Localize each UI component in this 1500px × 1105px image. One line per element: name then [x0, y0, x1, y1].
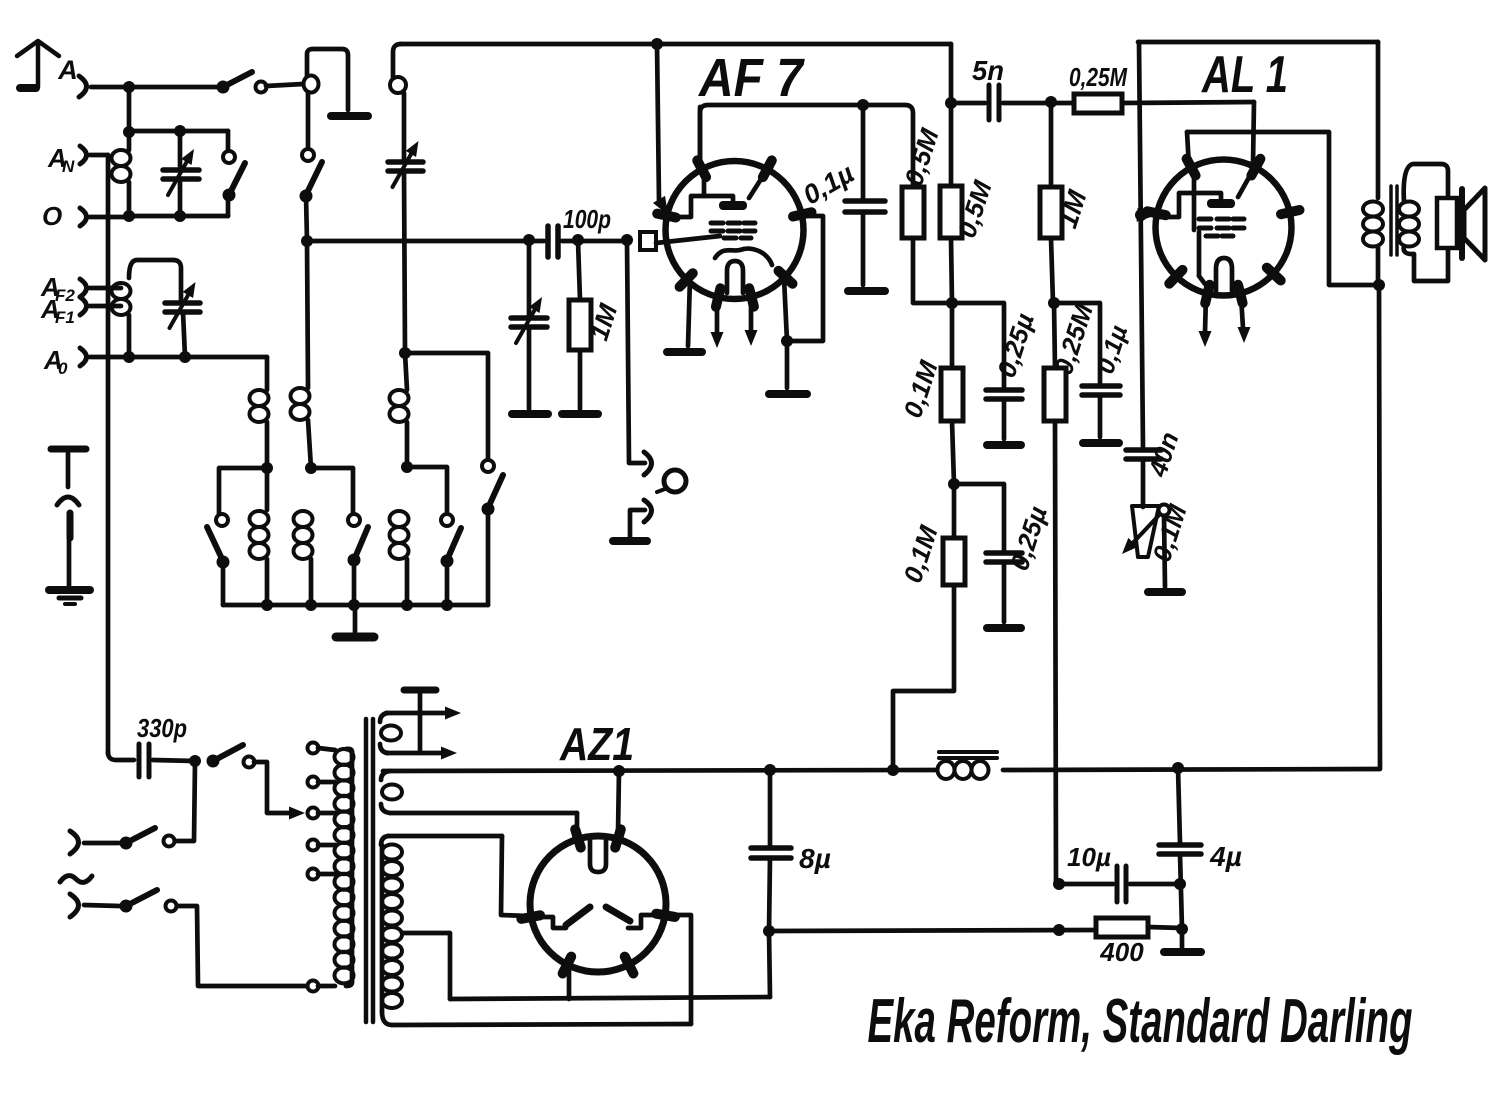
heater winding 2 loop [381, 771, 390, 780]
wire 0,5M1 bottom jog [913, 238, 1004, 388]
node A0 cap [179, 351, 191, 363]
speaker diaphragm [1459, 189, 1465, 258]
column2 lower coil L7 [294, 511, 313, 527]
resistor 0,1M first [950, 303, 955, 368]
node 330p out [189, 755, 201, 767]
node grid rail left [301, 235, 313, 247]
terminal O jaw [80, 208, 87, 226]
node bus choke [887, 764, 899, 776]
svg-text:4µ: 4µ [1209, 841, 1242, 872]
node divider mid [946, 297, 958, 309]
svg-text:0,25M: 0,25M [1069, 62, 1128, 92]
capacitor 330p [108, 752, 134, 760]
wire contact to coupling coil [266, 84, 303, 86]
ground of heater ct [404, 687, 436, 694]
OT secondary top lead [1404, 164, 1448, 202]
OT secondary bottom lead [1404, 246, 1448, 281]
padder coil L10 [393, 44, 401, 77]
terminal AF1 jaw [80, 297, 87, 315]
svg-text:AZ1: AZ1 [559, 718, 634, 770]
transformer core [364, 719, 369, 1022]
OT primary winding [1363, 202, 1383, 217]
AL1 cathode [1216, 258, 1232, 291]
AL1 pins [1147, 211, 1166, 215]
wire 0,1M2 to bus [893, 585, 954, 768]
wire O to tank1 [90, 215, 129, 220]
node column3 top [399, 347, 411, 359]
node grid feed [651, 38, 663, 50]
AF7 anode bar [719, 201, 747, 210]
ground (earth electrode) [49, 586, 90, 594]
tube AZ1 envelope [530, 836, 666, 972]
node tank1 top-left [123, 126, 135, 138]
node bus c3a [401, 599, 413, 611]
svg-text:AF 7: AF 7 [697, 48, 805, 108]
ground of AF7 cathode [667, 348, 702, 356]
tank2 top wire [129, 260, 181, 301]
wire N to switch [84, 905, 119, 906]
svg-text:Eka Reform, Standard Darling: Eka Reform, Standard Darling [868, 987, 1413, 1056]
wire 4u to ground [1180, 929, 1185, 948]
wire to AL1 grid cap [1253, 102, 1254, 164]
reaction variable capacitor C4 [527, 241, 532, 316]
node 10u left [1053, 878, 1065, 890]
earth stem lower [67, 539, 72, 586]
svg-text:O: O [42, 201, 62, 231]
column3 lower coil L9 [390, 511, 409, 527]
capacitor 8u [768, 770, 773, 846]
wire switch to grid rail [306, 196, 307, 241]
resistor 400 [1096, 918, 1148, 937]
node bus 8u [764, 764, 776, 776]
AF7 cathode [727, 261, 743, 293]
terminal AN jaw [80, 146, 87, 164]
AL1 top-right pin lead [1238, 172, 1252, 197]
ground of 1M [562, 410, 598, 418]
AF7 beam plate wave [715, 249, 772, 265]
wire AN to vertical [90, 153, 108, 158]
mains terminal L jaw [70, 831, 79, 854]
wire antenna to switch [91, 85, 222, 90]
AL1 top rail [1138, 40, 1378, 45]
wire C1 bottom [178, 179, 183, 216]
wire antenna node down [127, 87, 132, 132]
AZ1 key notch [590, 839, 606, 872]
AF7 grid top feed [657, 44, 659, 201]
wire AL1 grid vertical [1139, 42, 1143, 448]
svg-text:100p: 100p [563, 204, 611, 234]
potentiometer 0,1M wedge [1132, 506, 1159, 557]
node column1 mid [261, 462, 273, 474]
capacitor 10u [1059, 882, 1113, 887]
wire 400 to 4u [1148, 927, 1182, 928]
antenna A symbol [17, 41, 59, 87]
tube AL1 envelope [1156, 160, 1292, 296]
variable capacitor C1 [178, 131, 183, 166]
AF7 cathode pin to ground [688, 278, 690, 346]
node screen cap [857, 99, 869, 111]
AL1 grid arrow [1137, 208, 1154, 222]
AL1 top-left pin lead [1192, 170, 1197, 230]
ground of 0,1u AL1 [1083, 439, 1119, 447]
node jack branch [621, 234, 633, 246]
HV winding bottom lead [382, 1012, 392, 1025]
wire down to coil column 2 [307, 241, 308, 385]
ground of 4u [1164, 948, 1201, 956]
AL1 anode drop [1187, 132, 1189, 167]
transformer primary winding [335, 749, 354, 765]
AL1 anode bar [1207, 199, 1235, 208]
node tank1 bottom-left [123, 210, 135, 222]
phone plug [664, 470, 686, 492]
svg-text:AL 1: AL 1 [1200, 46, 1288, 104]
svg-text:5n: 5n [972, 55, 1004, 86]
svg-text:0: 0 [58, 359, 68, 378]
OT core [1389, 186, 1393, 255]
svg-text:F1: F1 [55, 308, 75, 327]
potentiometer terminal [1159, 505, 1170, 516]
wire C4 down [527, 327, 532, 409]
node grid leak [572, 234, 584, 246]
ground of pot [1148, 588, 1182, 596]
tank1 top wire [129, 129, 228, 134]
wire AN vertical down to 330p [106, 155, 111, 754]
coil bank bottom bus [223, 603, 488, 608]
switch S8 [120, 837, 133, 850]
mains terminal N jaw [70, 894, 79, 917]
AF7 anode out wire [787, 216, 823, 341]
wire top rail to OT [1376, 42, 1381, 198]
potentiometer wiper arrow [1130, 513, 1161, 546]
AL1 heater arrow right [1241, 296, 1243, 328]
heater winding 1 top [380, 713, 388, 722]
resistor 0,5M second [949, 103, 954, 186]
AZ1 anode stroke right [606, 907, 630, 921]
coil L2 [127, 132, 132, 150]
heater winding 2 to AZ1 [390, 811, 577, 816]
node low rail 8u [763, 925, 775, 937]
B+ bus right [1003, 769, 1380, 770]
wire AZ1 cathode tap [567, 958, 572, 999]
HV top to AZ1 anode [501, 836, 527, 916]
grid rail wire [307, 239, 544, 244]
HV center tap [402, 933, 450, 999]
AL1 grid dashes [1199, 217, 1211, 222]
phone jack prong upper [644, 452, 652, 475]
HV winding top lead [388, 834, 502, 839]
wire A0 to column1 [265, 357, 270, 390]
node bus gnd [348, 599, 360, 611]
node tank1 bottom-cap [174, 210, 186, 222]
switch S1a [217, 81, 230, 94]
capacitor 40n [1126, 447, 1161, 453]
wire bus down to AZ1 [618, 771, 619, 833]
wire C2 bottom [183, 312, 185, 357]
wire OT down to bus [1379, 285, 1380, 768]
earth stem upper [66, 453, 71, 487]
ground of 0,25u first [987, 441, 1021, 449]
speaker cone [1464, 188, 1485, 260]
column3 upper coil L8 [405, 353, 407, 390]
node bus c2a [305, 599, 317, 611]
mains AC symbol [60, 876, 92, 883]
ground of C4 [512, 410, 548, 418]
OT secondary winding [1399, 202, 1419, 217]
wire 0,5M2 bottom [951, 238, 952, 303]
switch S7 [207, 755, 220, 768]
ground of 0,1u [848, 287, 885, 295]
svg-text:400: 400 [1099, 937, 1144, 967]
wire 8u low link [769, 931, 770, 997]
svg-text:330p: 330p [137, 713, 187, 743]
wire AF2 to coil [90, 286, 121, 291]
switch S9 [120, 900, 133, 913]
phone jack prong lower [644, 500, 652, 522]
grid leak resistor 1M [578, 241, 580, 300]
AZ1 pins [575, 829, 581, 847]
node tank1 top-cap [174, 125, 186, 137]
AL1 heater arrow left [1205, 295, 1206, 332]
ground of coil bank [353, 605, 358, 633]
AF7 top-left pin lead [702, 175, 707, 196]
AF7 pins [657, 214, 676, 218]
column2 switch S4 [311, 468, 353, 514]
ground of coil L1 [331, 112, 368, 120]
speaker coil box [1437, 198, 1457, 248]
capacitor 0,1u AF7 [861, 105, 866, 199]
B+ bus left [383, 770, 937, 771]
wire S9 to bottom tap [177, 906, 306, 986]
antenna plug pin [20, 84, 36, 92]
resistor 0,25M vertical [1054, 303, 1055, 368]
capacitor 0,25u first [986, 387, 1022, 393]
AF7 heater arrow left [715, 297, 720, 333]
node grid varcap [523, 234, 535, 246]
ground of 0,25u second [987, 624, 1021, 632]
screen rail wire [700, 105, 913, 187]
wire C3 down to column3 [404, 171, 405, 351]
earth terminal bar [51, 446, 86, 453]
capacitor 100p [545, 226, 551, 257]
node AF7 anode return [781, 335, 793, 347]
node OT to anode [1373, 279, 1385, 291]
AF7 top-right pin lead [749, 176, 763, 198]
AF7 anode elbow [671, 196, 733, 217]
AZ1 left step [534, 917, 566, 928]
node decoupling mid [948, 478, 960, 490]
filter choke [938, 761, 955, 779]
svg-text:N: N [62, 157, 75, 176]
node bus c1a [261, 599, 273, 611]
node bus c3b [441, 599, 453, 611]
ground of AF7 return [769, 390, 807, 398]
terminal A0 jaw [80, 348, 87, 366]
antenna coupling coil L1 [307, 49, 348, 110]
wire S8 to 330p node [175, 763, 195, 841]
node A0 coil [123, 351, 135, 363]
earth plug pin [67, 513, 74, 538]
heater winding 1 loop [381, 726, 401, 741]
node bus 4u [1172, 762, 1184, 774]
earth jaw [57, 497, 79, 505]
ground of jack [613, 537, 647, 545]
column1 upper coil L4 [250, 390, 269, 406]
column1 switch S3 [219, 468, 267, 514]
resistor 1M AL1 [1049, 103, 1054, 187]
node screen top [945, 97, 957, 109]
transformer primary taps [308, 743, 319, 754]
AZ1 right step [628, 915, 662, 928]
HV winding [382, 845, 402, 860]
AF7 bottom-right pin wire [784, 278, 787, 341]
AF7 screen lead [698, 107, 703, 165]
svg-text:10µ: 10µ [1067, 842, 1111, 872]
svg-text:A: A [57, 55, 78, 85]
resistor 0,5M first [902, 187, 924, 238]
wire 0,1M join [952, 421, 954, 484]
node 5n out [1045, 96, 1057, 108]
node column2 mid [305, 462, 317, 474]
low rail [769, 930, 1096, 931]
capacitor 0,25u second [954, 484, 1004, 551]
wire A0 bus [90, 355, 267, 360]
AF7 heater arrow right [749, 298, 754, 331]
wire S7 to tap [254, 762, 289, 813]
node 10u right [1174, 878, 1186, 890]
wire to phone jack [627, 241, 645, 463]
resistor 0,1M second [952, 484, 957, 538]
column3 switch S6 [407, 467, 447, 514]
switch S2 of tank1 [226, 131, 231, 150]
node AL1 grid [1135, 209, 1147, 221]
coil L3 [112, 283, 131, 299]
svg-text:8µ: 8µ [799, 843, 831, 874]
column1 lower coil L5 [265, 468, 270, 510]
capacitor 0,1u AL1 [1054, 303, 1100, 384]
column3 switch S5 [405, 353, 488, 460]
filament rail [450, 997, 770, 999]
variable capacitor C3 [388, 159, 423, 165]
AF7 grid dashes [711, 221, 723, 226]
AL1 anode top wire [1187, 132, 1377, 285]
capacitor 4u [1178, 768, 1180, 843]
wire pot to ground [1164, 516, 1165, 587]
tube AF7 envelope [666, 161, 804, 299]
AZ1 anode return [665, 915, 691, 1024]
node bus AZ1 [613, 765, 625, 777]
capacitor 5n [951, 101, 985, 106]
terminal AF2 jaw [80, 279, 87, 297]
node 400 out [1176, 923, 1188, 935]
column2 upper coil L6 [306, 385, 311, 388]
AL1 anode elbow [1160, 193, 1221, 217]
wire L to switch [84, 841, 119, 846]
switch S1b [302, 149, 314, 161]
node low rail divider [1053, 924, 1065, 936]
variable capacitor C2 [165, 300, 200, 306]
top rail wire [401, 42, 951, 47]
terminal A jaw [79, 76, 87, 97]
resistor 0,25M coupling [1051, 101, 1074, 106]
node column3 mid [401, 461, 413, 473]
top rail corner down [949, 44, 954, 103]
heater winding 1 bottom [380, 744, 388, 753]
AZ1 anode stroke left [566, 907, 590, 925]
node 1M bottom [1048, 297, 1060, 309]
node antenna/tank1 [123, 81, 135, 93]
grid cap lead [656, 236, 720, 243]
wire AF1 to coil [90, 304, 121, 309]
tank1 bottom wire [129, 214, 228, 219]
grid cap square [640, 232, 656, 250]
